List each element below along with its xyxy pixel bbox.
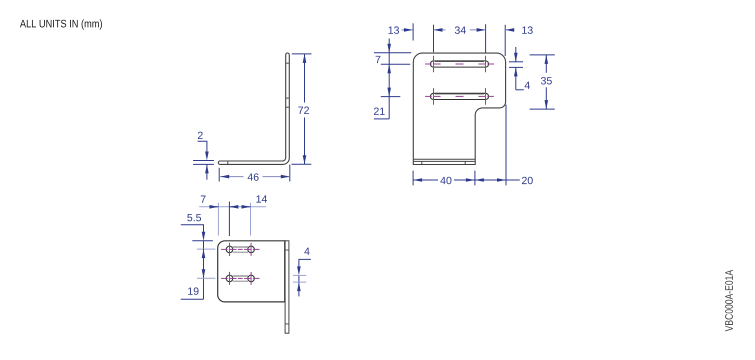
bottom view plate outline (218, 241, 285, 302)
centerline slot1 middle dash (456, 63, 464, 65)
dimension 5.5 (bottom view left) (181, 225, 213, 249)
centerline bottom slot2 left end (221, 272, 237, 285)
flange corner tangent tick top (285, 249, 289, 251)
dimension 21 (front left) (374, 64, 400, 119)
dimension 7 (front left) (374, 39, 411, 65)
side view slot edge tick A (286, 62, 290, 64)
dimension 72 (height) (291, 54, 311, 164)
bottom slot 2 (226, 275, 233, 282)
dimension 13 left (top) (412, 23, 414, 40)
dimension 13 right (top) (504, 25, 506, 56)
centerline slot2 middle dash (456, 95, 464, 97)
centerline slot1 left end (425, 56, 441, 73)
front slot 1 (430, 61, 488, 67)
front slot 2 (430, 93, 488, 99)
centerline slot2 right end (478, 88, 494, 105)
side view slot edge tick B (286, 97, 290, 99)
dimension 34 (top) (434, 24, 486, 52)
side view step edge tick (286, 106, 290, 108)
dimension 4 (front right, slot width) (509, 47, 524, 90)
front view fold tangent line (413, 158, 475, 160)
dimension 35 (front right) (530, 55, 555, 109)
side view outline (218, 53, 289, 164)
centerline bottom slot2 middle dash (238, 277, 243, 279)
front view corner tangent notch right (464, 161, 466, 164)
centerline bottom slot1 right end (244, 243, 260, 256)
front view fold inner line (413, 160, 475, 162)
dimension 19 (bottom view left) (181, 249, 204, 299)
dimension 7 (bottom view top) (199, 206, 266, 208)
title note: ALL UNITS IN (mm) (20, 19, 102, 29)
dimension 14 (bottom view top) (250, 203, 252, 236)
bottom view flange strip (285, 241, 289, 333)
flange corner tangent tick bottom (285, 323, 289, 325)
bottom slot 1 (226, 246, 233, 253)
centerline bottom slot2 right end (244, 272, 260, 285)
centerline slot2 left end (425, 88, 441, 105)
drawing number label VBC000A-E01A (vertical) (725, 270, 733, 331)
centerline bottom slot1 middle dash (238, 248, 243, 250)
front view corner tangent notch left (421, 161, 423, 164)
side view base tick (227, 161, 229, 164)
dimension 46 (base length) (219, 165, 290, 182)
centerline slot1 right end (478, 56, 494, 73)
dimension 4 (bottom view right) (299, 259, 311, 296)
dimension 40 (front bottom) (413, 171, 475, 186)
dimension 20 (front bottom) (475, 105, 520, 186)
front view outline (413, 53, 505, 164)
centerline bottom slot1 left end (221, 243, 237, 256)
dimension 2 (thickness) (193, 141, 214, 179)
